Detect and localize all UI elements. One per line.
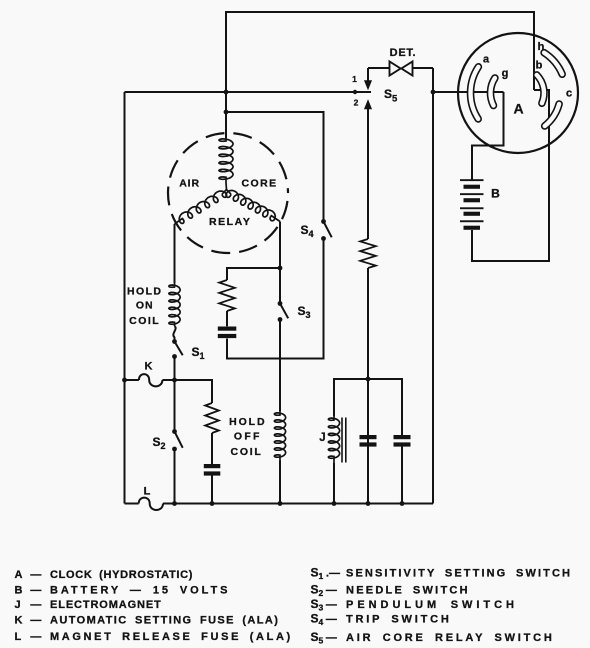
wire DET left: [368, 67, 389, 69]
switch S3 blade: [280, 304, 288, 319]
wire DET right: [413, 67, 433, 69]
detonator valve DET: [390, 62, 413, 76]
switch S4 blade: [324, 222, 332, 238]
svg-text:SENSITIVITY SETTING SWITCH: SENSITIVITY SETTING SWITCH: [346, 567, 572, 579]
wire resistor-left to cap: [211, 433, 213, 464]
svg-text:—: —: [30, 631, 41, 643]
svg-text:COIL: COIL: [231, 446, 263, 458]
switch S3 top contact: [278, 301, 283, 306]
svg-text:L: L: [144, 486, 151, 498]
svg-text:—: —: [326, 599, 337, 611]
wire clock feed: [433, 91, 504, 93]
wire bottom bus left stub: [125, 503, 139, 505]
svg-text:CLOCK (HYDROSTATIC): CLOCK (HYDROSTATIC): [50, 569, 193, 581]
wire branch horizontal to S4: [226, 112, 324, 222]
switch S5 arrow down: [365, 81, 372, 89]
node main-top junction: [224, 90, 229, 95]
svg-text:BATTERY — 15 VOLTS: BATTERY — 15 VOLTS: [50, 585, 230, 597]
clock slot c: [545, 104, 559, 126]
fuse L: [139, 498, 163, 510]
wire battery to clock right: [472, 90, 549, 261]
legend right column: [311, 565, 573, 645]
hold-on coil tail: [173, 326, 175, 340]
battery B: [460, 179, 484, 230]
switch S3 bottom contact: [278, 317, 283, 322]
wire right vertical: [432, 68, 434, 504]
svg-text:L: L: [15, 631, 22, 643]
svg-text:—: —: [326, 632, 337, 644]
relay right coil: [226, 191, 280, 222]
wire cap-J2 to bus: [401, 447, 403, 504]
switch S2 blade: [175, 432, 183, 448]
node bus cap-J2: [400, 501, 405, 506]
wire relay right coil drop: [279, 222, 281, 269]
hold-off coil: [274, 411, 285, 461]
svg-text:g: g: [502, 68, 509, 80]
svg-text:K: K: [145, 361, 153, 373]
wire cap-J1 stub lower: [367, 447, 369, 461]
resistor S5 branch: [360, 239, 376, 268]
node resistor-branch junction: [278, 266, 283, 271]
capacitor C left branch: [204, 464, 221, 476]
node bus S2: [172, 501, 177, 506]
svg-text:J: J: [15, 599, 21, 611]
node bus S5-branch: [366, 501, 371, 506]
wire resistor-mid top corner: [227, 268, 280, 280]
relay center fork: [222, 190, 231, 195]
svg-text:MAGNET RELEASE FUSE (ALA): MAGNET RELEASE FUSE (ALA): [50, 631, 293, 643]
svg-text:CORE: CORE: [242, 177, 278, 189]
resistor left branch: [205, 403, 219, 433]
svg-text:AUTOMATIC SETTING FUSE (ALA): AUTOMATIC SETTING FUSE (ALA): [50, 615, 279, 627]
svg-text:—: —: [30, 569, 41, 581]
switch S5 terminal 1 lead: [367, 68, 369, 81]
svg-text:—: —: [30, 585, 41, 597]
capacitor C J1: [360, 435, 377, 447]
svg-text:1: 1: [352, 74, 357, 84]
wire main horizontal: [125, 91, 372, 93]
svg-text:a: a: [483, 54, 490, 66]
svg-text:h: h: [538, 41, 545, 53]
svg-text:HOLD: HOLD: [127, 286, 162, 298]
node branch junction: [224, 110, 229, 115]
wire clock left notch: [472, 92, 504, 180]
wire S5 resistor to bus: [367, 268, 369, 504]
node DET junction: [431, 90, 436, 95]
node bus J: [332, 501, 337, 506]
wire J rail: [334, 379, 402, 435]
wire S3 upper: [279, 268, 281, 304]
wire S2 to bus: [174, 449, 176, 504]
clock slot b: [537, 75, 544, 103]
svg-text:B: B: [491, 187, 500, 201]
resistor mid branch: [219, 280, 235, 311]
wire cap-J1 stub upper: [367, 379, 369, 435]
wire S4 to rect bottom: [227, 239, 324, 359]
svg-text:b: b: [536, 60, 543, 72]
switch S4 top contact: [321, 219, 326, 224]
relay left coil: [175, 191, 227, 224]
clock slot g: [490, 78, 494, 106]
wire main vertical upper: [225, 92, 227, 138]
node bus holdoff: [278, 501, 283, 506]
capacitor C J2: [394, 435, 411, 447]
electromagnet J coil: [328, 416, 339, 463]
wire top rail: [226, 12, 534, 92]
wire J coil to bus: [333, 463, 335, 504]
switch S1 blade: [175, 342, 183, 356]
wire S3 lower: [279, 320, 281, 412]
fuse K: [139, 374, 163, 386]
svg-text:—: —: [30, 599, 41, 611]
wire K line left: [125, 379, 139, 381]
svg-text:ON: ON: [136, 300, 154, 312]
svg-text:TRIP SWITCH: TRIP SWITCH: [346, 614, 452, 626]
switch S4 bottom contact: [321, 236, 326, 241]
svg-text:DET.: DET.: [390, 47, 417, 59]
svg-text:COIL: COIL: [129, 315, 160, 327]
electromagnet J core: [342, 418, 346, 463]
switch S1 top contact: [172, 339, 177, 344]
node K junction: [172, 378, 177, 383]
svg-text:AIR: AIR: [179, 177, 200, 189]
svg-text:—: —: [326, 614, 337, 626]
wire S5 lower branch: [367, 109, 369, 239]
svg-text:A: A: [15, 569, 23, 581]
air core relay dashed circle: [168, 133, 288, 253]
node J rail junction: [366, 377, 371, 382]
svg-text:AIR CORE RELAY SWITCH: AIR CORE RELAY SWITCH: [346, 632, 555, 644]
wire holdoff to bus: [279, 461, 281, 504]
clock slot a: [471, 67, 479, 119]
hold-on coil: [169, 283, 180, 326]
svg-text:NEEDLE SWITCH: NEEDLE SWITCH: [346, 585, 470, 597]
svg-text:c: c: [566, 88, 572, 100]
svg-text:.—: .—: [326, 567, 340, 579]
node S5 pivot: [353, 90, 357, 94]
node K left bus junction: [122, 378, 127, 383]
svg-text:ELECTROMAGNET: ELECTROMAGNET: [50, 599, 162, 611]
node bus cap-left: [210, 501, 215, 506]
legend left column: [15, 569, 293, 643]
switch S5 arrow up: [365, 101, 372, 109]
wire K line right: [162, 380, 212, 403]
wire left bus: [124, 92, 126, 504]
clock slot h: [544, 53, 562, 74]
wire S1 to K junction: [174, 357, 176, 432]
wire cap-mid to resistor: [226, 311, 228, 326]
svg-text:HOLD: HOLD: [229, 416, 266, 428]
svg-text:A: A: [513, 101, 523, 117]
svg-text:K: K: [15, 615, 23, 627]
wire cap-left to bus: [211, 475, 213, 504]
svg-text:J: J: [319, 432, 325, 444]
svg-text:2: 2: [354, 98, 359, 108]
capacitor C mid branch: [218, 327, 237, 339]
svg-text:B: B: [15, 585, 23, 597]
relay top coil: [219, 138, 233, 190]
switch S2 top contact: [172, 429, 177, 434]
svg-text:—: —: [30, 615, 41, 627]
svg-text:PENDULUM SWITCH: PENDULUM SWITCH: [346, 599, 518, 611]
switch S1 bottom contact: [172, 354, 177, 359]
svg-text:OFF: OFF: [234, 431, 262, 443]
svg-text:—: —: [326, 585, 337, 597]
wire bottom bus: [163, 503, 433, 505]
wire relay left coil drop: [174, 224, 176, 283]
svg-text:RELAY: RELAY: [209, 216, 251, 228]
switch S2 bottom contact: [172, 447, 177, 452]
clock A circle: [458, 33, 578, 153]
